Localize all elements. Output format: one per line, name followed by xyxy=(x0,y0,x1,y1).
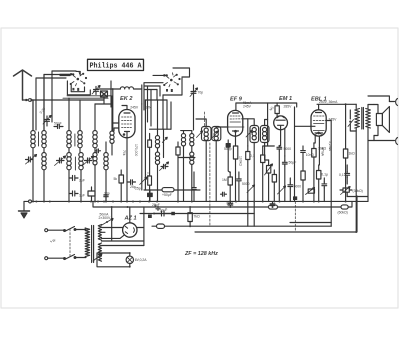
capacitor 1uF xyxy=(69,191,78,196)
svg-text:0,5: 0,5 xyxy=(146,172,150,177)
wire AZ1 cathode right xyxy=(137,207,144,246)
wire T2 connections xyxy=(248,119,269,226)
coil L15 xyxy=(190,134,194,146)
phone jack bottom xyxy=(368,138,398,145)
coil L10 xyxy=(104,153,108,170)
svg-text:6V,0,2A: 6V,0,2A xyxy=(135,258,147,262)
svg-text:10nD: 10nD xyxy=(306,153,315,157)
svg-text:Philips 446 A: Philips 446 A xyxy=(90,63,142,71)
capacitor 25pF right of EK2 xyxy=(127,180,135,185)
resistor 1M vertical xyxy=(301,171,305,201)
resistor 0.1 EM1 xyxy=(261,146,268,202)
IF transformer T2 xyxy=(246,126,269,143)
coil L14 xyxy=(181,134,185,146)
svg-text:47mA: 47mA xyxy=(321,147,325,157)
resistor 100k cathode xyxy=(233,146,237,202)
wire EBL1 cathode down xyxy=(314,136,320,165)
ground xyxy=(19,202,30,219)
wire osc box right xyxy=(111,81,113,131)
coil L11 xyxy=(110,131,114,143)
dashed switch linkage xyxy=(69,229,71,256)
svg-text:0,1: 0,1 xyxy=(339,173,344,177)
svg-text:ZF = 128 kHz: ZF = 128 kHz xyxy=(184,251,218,257)
wire switch lower horizontals xyxy=(63,96,111,98)
potentiometer volume xyxy=(265,160,273,202)
wire EBL1 grid left xyxy=(295,125,316,127)
wire right side verticals xyxy=(347,96,389,201)
svg-text:27k: 27k xyxy=(146,106,152,110)
capacitor variable tuning C1 xyxy=(26,155,37,165)
switch mains upper blade xyxy=(64,227,76,232)
wire mid bus segment xyxy=(140,213,254,215)
wire switch to transformer xyxy=(75,230,86,258)
switch contact marks osc xyxy=(166,89,168,92)
coil L5 xyxy=(67,153,71,170)
capacitor trimmer padder xyxy=(92,86,100,95)
wire padder column xyxy=(193,85,195,130)
oscillator switch cluster S3 xyxy=(164,73,181,87)
transformer TR secondary LT xyxy=(98,243,101,261)
resistor det load xyxy=(246,146,250,226)
svg-text:(30kΩ): (30kΩ) xyxy=(353,189,363,193)
capacitor 33uF xyxy=(153,211,175,216)
wire bottom box line A xyxy=(152,225,331,227)
capacitor 5000 xyxy=(237,172,242,201)
capacitor variable tuning C3 xyxy=(83,156,94,166)
transformer TR core xyxy=(92,226,94,263)
output transformer T3 secondary xyxy=(366,109,371,129)
capacitor 60p mid xyxy=(192,172,196,201)
resistor 0,5 upper xyxy=(148,134,152,177)
wire switch box outer xyxy=(67,81,90,95)
dashed vertical right xyxy=(294,201,296,232)
output transformer T3 primary xyxy=(355,109,360,129)
svg-text:5000: 5000 xyxy=(284,147,292,151)
svg-text:170,000: 170,000 xyxy=(134,144,138,156)
wire EM1 right down xyxy=(294,107,296,201)
capacitor 5000 b xyxy=(288,183,293,189)
capacitor padder 70pF xyxy=(190,88,198,97)
capacitor variable tuning C2 xyxy=(55,156,66,166)
wire antenna to input xyxy=(23,99,105,101)
svg-text:EK 2: EK 2 xyxy=(120,96,133,102)
capacitor 10pF left bus xyxy=(104,193,108,202)
switch mains lower blade xyxy=(64,255,76,260)
resistor oval mid xyxy=(162,188,174,192)
potentiometer 30k tone xyxy=(340,187,352,195)
wire input line to coils xyxy=(30,100,33,130)
coil L12 osc feedback xyxy=(99,88,121,90)
wire xyxy=(52,71,76,122)
title box Philips 446 A xyxy=(88,59,144,70)
capacitor 10n xyxy=(322,182,327,188)
core lines band filters xyxy=(39,132,76,170)
wire AZ1 left xyxy=(102,227,123,229)
svg-text:10p: 10p xyxy=(104,192,110,196)
dashed AVC vertical xyxy=(209,143,211,226)
band switch cluster S1 xyxy=(70,72,87,86)
resistor 0,5 xyxy=(148,176,152,201)
padder coil box xyxy=(101,91,108,97)
wire EBL1 right xyxy=(326,121,331,223)
wire B+ bus xyxy=(93,201,341,207)
capacitor 8n mid xyxy=(221,192,227,196)
svg-text:25p: 25p xyxy=(130,185,136,189)
resistor left of L14 xyxy=(176,142,180,202)
pilot lamp loop xyxy=(97,253,130,267)
capacitor trimmer 0,5 xyxy=(160,162,169,171)
wire osc box lines xyxy=(144,83,163,126)
capacitor 3-30 trimmer xyxy=(43,116,51,127)
wire EF9 anode top xyxy=(236,103,268,110)
svg-text:345V: 345V xyxy=(329,118,338,122)
mains terminal upper xyxy=(45,229,48,232)
coil L2 xyxy=(42,131,46,148)
svg-text:AZ 1: AZ 1 xyxy=(124,215,137,221)
trimmer arrow L13 xyxy=(162,137,167,142)
switch contact marks xyxy=(72,88,74,91)
coil L3 xyxy=(42,153,46,170)
wire osc switch feed arrows xyxy=(153,75,166,76)
potentiometer arrow c xyxy=(247,185,255,193)
svg-text:25p: 25p xyxy=(135,187,141,191)
small value labels xyxy=(39,91,363,263)
tube EF9 envelope xyxy=(227,110,246,136)
trimmer arrow under EK2 xyxy=(140,177,147,184)
wire switch box inner xyxy=(71,85,84,91)
capacitor block black xyxy=(148,215,152,219)
coil L4 xyxy=(67,131,71,148)
T3 core xyxy=(362,108,364,130)
svg-text:5k: 5k xyxy=(114,177,118,181)
svg-text:245V: 245V xyxy=(130,106,139,110)
svg-text:500p: 500p xyxy=(224,147,232,151)
tube EM1 xyxy=(274,116,288,130)
wire output junction xyxy=(345,103,347,105)
svg-text:285V: 285V xyxy=(284,105,293,109)
wire HT to bus xyxy=(111,207,113,240)
svg-text:EF 9: EF 9 xyxy=(230,97,243,103)
capacitor 50pF xyxy=(54,125,63,129)
wire right caps xyxy=(346,165,348,197)
resistor 50k xyxy=(272,170,276,202)
IF transformer T1 xyxy=(197,127,221,141)
capacitor 50uF black right xyxy=(293,196,297,200)
svg-text:70p: 70p xyxy=(198,91,204,95)
wire 27k column xyxy=(144,100,146,190)
capacitor 0.1uF right xyxy=(345,172,350,178)
svg-text:2×300V: 2×300V xyxy=(99,216,112,220)
wire AZ1 anode top xyxy=(129,207,131,223)
svg-text:5000: 5000 xyxy=(294,185,302,189)
potentiometer tone EBL1 xyxy=(306,188,315,195)
capacitor 10nD xyxy=(301,146,306,171)
wire mains xyxy=(48,230,64,258)
coil L1 antenna xyxy=(31,131,35,148)
wire osc inner box xyxy=(157,78,182,129)
resistor 1M xyxy=(228,172,232,202)
tube EBL1 xyxy=(311,110,326,136)
svg-text:100kΩ: 100kΩ xyxy=(239,156,243,166)
coil L7 xyxy=(79,153,83,170)
tube EK2 envelope xyxy=(119,110,135,138)
capacitor 5000 EM1 xyxy=(277,146,282,152)
wire EK2 left xyxy=(112,123,119,131)
wire switch feed arrows xyxy=(60,74,73,76)
svg-text:7kΩ: 7kΩ xyxy=(194,215,201,219)
svg-text:85V: 85V xyxy=(227,202,234,206)
wire EF9 screen xyxy=(243,119,248,146)
text layer xyxy=(39,63,363,262)
wire T1 connections xyxy=(196,119,221,202)
node phono loop on bus xyxy=(29,200,32,203)
wire EK2 right column xyxy=(141,85,143,190)
svg-text:2μF: 2μF xyxy=(79,179,85,183)
wire xyxy=(44,75,70,131)
svg-text:70k: 70k xyxy=(122,150,126,156)
coil L6 xyxy=(78,131,82,148)
wire EM1 box top xyxy=(268,103,297,146)
svg-text:50μF: 50μF xyxy=(289,161,297,165)
svg-text:1μF: 1μF xyxy=(79,194,85,198)
wire bottom box line B xyxy=(195,196,357,232)
resistor 60k oval right xyxy=(341,201,352,209)
capacitor 500pF xyxy=(226,140,230,173)
phone jack top xyxy=(389,99,397,106)
svg-text:1M: 1M xyxy=(222,178,227,182)
resistor 1k right xyxy=(343,104,347,201)
svg-text:20μF: 20μF xyxy=(152,203,160,207)
mains terminal lower xyxy=(45,257,48,260)
tube AZ1 xyxy=(123,223,137,237)
junction dots on buses xyxy=(32,201,357,234)
fuse oval bottom xyxy=(157,224,165,228)
resistor oval on B+ bus xyxy=(269,205,278,209)
wire EBL1 anode top xyxy=(317,104,356,110)
pilot lamp xyxy=(126,252,133,268)
svg-text:+50μF: +50μF xyxy=(162,193,172,197)
wire EBL1 net verticals xyxy=(323,178,325,202)
wire EF9 grid xyxy=(221,126,228,128)
capacitor 45 xyxy=(95,149,101,153)
wire misc top connects xyxy=(95,91,112,104)
svg-text:245V: 245V xyxy=(243,105,252,109)
coil L9 xyxy=(93,153,97,165)
fuse arrow xyxy=(101,219,113,226)
capacitor 2uF xyxy=(69,176,78,181)
wire EK2 grid top xyxy=(122,106,127,110)
resistor LW box xyxy=(88,191,95,196)
coil L13 xyxy=(155,136,159,148)
wire osc link row xyxy=(150,129,195,157)
resistor 5k under EK2 xyxy=(119,170,124,202)
wire mid row xyxy=(144,189,200,191)
voltage selector arrow xyxy=(93,254,102,261)
wire AZ1 lower left xyxy=(102,235,125,239)
resistor 1M EM1 grid xyxy=(275,103,279,117)
capacitor 20uF xyxy=(155,205,161,211)
capacitor 50uF black xyxy=(148,190,153,202)
wire main ground bus xyxy=(24,200,368,202)
capacitor 85V xyxy=(228,201,233,207)
wire switch top right xyxy=(76,71,80,75)
potentiometer arrow a xyxy=(278,186,286,194)
antenna xyxy=(14,70,32,100)
resistor 0.2 xyxy=(317,165,321,202)
svg-text:5000: 5000 xyxy=(242,182,250,186)
capacitor tone across primary xyxy=(348,110,356,131)
svg-text:1kΩ: 1kΩ xyxy=(349,152,356,156)
wire EK2 cathode down xyxy=(126,138,128,202)
transformer TR primary xyxy=(85,228,89,258)
wire osc top loop xyxy=(173,68,190,77)
wire EM1 net verticals xyxy=(285,156,291,202)
resistor 10k xyxy=(312,143,316,202)
wire top right of EK2 xyxy=(145,95,182,100)
svg-text:0,1: 0,1 xyxy=(250,154,255,158)
speaker LS xyxy=(374,105,389,136)
resistor 7k xyxy=(188,207,192,226)
svg-text:0,1μ: 0,1μ xyxy=(321,173,328,177)
capacitor 50uF EM1 xyxy=(282,161,287,167)
transformer TR secondary HT xyxy=(98,225,101,241)
svg-text:50pF: 50pF xyxy=(54,122,62,126)
svg-text:5,2mA: 5,2mA xyxy=(328,141,332,152)
coil L8 oscillator xyxy=(93,131,97,148)
svg-text:EM 1: EM 1 xyxy=(279,96,292,102)
wire bottom right inner box xyxy=(290,223,331,227)
capacitor right bus xyxy=(270,202,275,207)
wire secondary taps xyxy=(102,232,144,245)
wire nested top left xyxy=(36,78,66,130)
svg-text:250V, 36mA: 250V, 36mA xyxy=(319,100,338,104)
wire EM1 cathode down xyxy=(279,130,280,202)
svg-text:(60kΩ): (60kΩ) xyxy=(338,211,348,215)
node antenna terminal xyxy=(28,98,31,101)
wire EF9 cathode xyxy=(235,136,237,146)
wire EM1 right xyxy=(284,129,286,156)
